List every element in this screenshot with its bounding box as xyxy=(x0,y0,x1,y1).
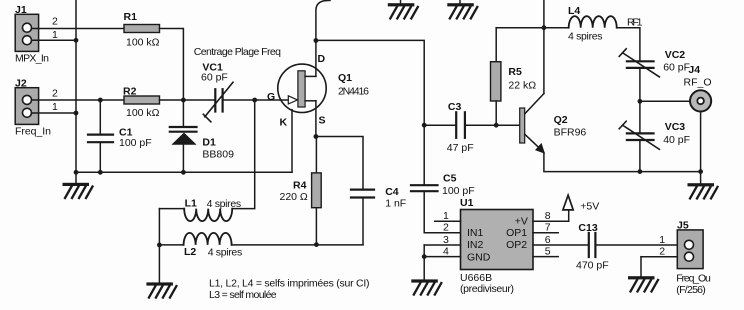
svg-text:7: 7 xyxy=(545,222,551,234)
svg-text:VC2: VC2 xyxy=(665,49,686,61)
node: junction R5 bottom / Q2 base xyxy=(494,123,499,128)
wire J2 pin1 to bus xyxy=(31,101,76,113)
svg-text:60 pF: 60 pF xyxy=(201,72,228,84)
svg-text:220 Ω: 220 Ω xyxy=(280,191,308,203)
ground top 1 xyxy=(388,0,418,18)
ground row wire (C1/D1/K) xyxy=(76,171,292,173)
svg-text:J1: J1 xyxy=(15,4,27,16)
node: junction bus / ground row xyxy=(74,170,79,175)
svg-text:1: 1 xyxy=(52,29,58,41)
wire K to ground row xyxy=(291,110,293,173)
svg-text:RF_O: RF_O xyxy=(684,77,712,89)
ground under J4 xyxy=(688,172,718,199)
capacitor C13 xyxy=(576,222,685,272)
capacitor C5 xyxy=(411,125,475,233)
svg-text:22 kΩ: 22 kΩ xyxy=(508,80,536,92)
svg-text:4 spires: 4 spires xyxy=(207,198,242,210)
svg-text:C4: C4 xyxy=(385,186,399,198)
svg-text:R5: R5 xyxy=(508,66,522,78)
pin 6 wire xyxy=(533,234,589,246)
svg-text:Q2: Q2 xyxy=(554,114,568,126)
node: junction D1 bottom on ground row xyxy=(181,170,186,175)
wire source row to C4 xyxy=(316,137,363,190)
svg-text:+5V: +5V xyxy=(580,201,599,213)
svg-text:2: 2 xyxy=(52,16,58,28)
svg-text:+V: +V xyxy=(515,216,528,228)
wire Q2 emitter down and right rail xyxy=(544,153,701,172)
wire J5 pin2 xyxy=(641,245,685,257)
svg-text:C13: C13 xyxy=(578,222,597,234)
wire L1 left elbow down xyxy=(158,209,160,245)
node: junction R1/R2/D1 xyxy=(181,98,186,103)
top rail xyxy=(496,27,569,29)
svg-text:J5: J5 xyxy=(677,220,689,232)
wire R1 right to node A xyxy=(160,29,184,102)
svg-text:D: D xyxy=(318,53,326,65)
wire pin3 elbow down xyxy=(423,245,425,257)
node: junction pin3/pin4/ground xyxy=(422,254,427,259)
svg-text:C5: C5 xyxy=(443,173,457,185)
svg-text:470 pF: 470 pF xyxy=(576,260,609,272)
svg-text:IN1: IN1 xyxy=(467,227,484,239)
trimmer capacitor VC3 xyxy=(619,101,690,149)
wire L4 to VC2 column xyxy=(617,28,640,61)
svg-text:2N4416: 2N4416 xyxy=(338,86,369,98)
wire bus vertical xyxy=(75,0,77,172)
+5V supply symbol xyxy=(563,195,599,221)
connector J2 xyxy=(15,77,51,137)
wire Q1 source down xyxy=(315,101,317,137)
svg-text:RF1: RF1 xyxy=(627,17,643,29)
svg-text:100 pF: 100 pF xyxy=(119,137,152,149)
svg-text:L2: L2 xyxy=(184,246,196,258)
svg-text:J4: J4 xyxy=(688,64,700,76)
inductor L1 xyxy=(159,197,241,221)
pin 4 wire xyxy=(424,245,460,257)
connector J5 xyxy=(676,220,711,297)
svg-text:6: 6 xyxy=(545,234,551,246)
svg-text:Freq_Ou: Freq_Ou xyxy=(676,272,711,284)
svg-text:100 kΩ: 100 kΩ xyxy=(126,107,160,119)
wire J1 pin2 to R1 xyxy=(31,16,124,29)
svg-text:Q1: Q1 xyxy=(338,72,352,84)
pin 8 wire xyxy=(533,210,569,222)
ground under L junction xyxy=(146,245,176,298)
inductor L4 xyxy=(568,5,617,43)
capacitor C1 xyxy=(88,100,152,172)
node: junction VC3 / emitter rail xyxy=(638,169,643,174)
wire gate node down to L1 xyxy=(232,100,255,209)
JFET Q1 xyxy=(267,53,369,129)
node: junction J1 pin1 / bus xyxy=(74,38,79,43)
node: junction L1/L2/ground xyxy=(157,243,162,248)
svg-text:OP1: OP1 xyxy=(506,227,527,239)
wire top rail up to edge xyxy=(543,0,545,28)
node: junction VC2/VC3/J4 xyxy=(638,99,643,104)
svg-text:R4: R4 xyxy=(293,180,307,192)
node: junction J4 ground xyxy=(698,169,703,174)
pin 5 stub xyxy=(533,245,558,257)
wire bottom rail L2 to R4/C4 xyxy=(232,244,363,246)
wire VC1 to gate node xyxy=(223,99,288,101)
svg-text:1: 1 xyxy=(659,234,665,246)
svg-text:(F/256): (F/256) xyxy=(676,284,706,296)
svg-text:2: 2 xyxy=(659,245,665,257)
svg-text:2: 2 xyxy=(52,88,58,100)
capacitor C3 xyxy=(424,101,520,154)
transistor Q2 xyxy=(520,94,587,153)
wire node to J4 xyxy=(640,100,690,102)
node: junction top rail xyxy=(542,25,547,30)
svg-text:4 spires: 4 spires xyxy=(208,246,243,258)
wire J2 pin2 to R2 xyxy=(31,88,124,101)
svg-text:100 kΩ: 100 kΩ xyxy=(126,37,160,49)
node: junction R4 bottom xyxy=(314,242,319,247)
svg-text:G: G xyxy=(267,91,275,103)
pin 7 stub xyxy=(533,222,558,234)
svg-text:R1: R1 xyxy=(124,11,138,23)
wire drain row to C3 column xyxy=(316,40,424,125)
node: junction C1 bottom xyxy=(98,170,103,175)
wire R2 right to VC1 xyxy=(160,99,216,101)
svg-text:1 nF: 1 nF xyxy=(385,197,406,209)
inductor L2 xyxy=(159,233,242,258)
svg-text:4 spires: 4 spires xyxy=(568,31,603,43)
connector J1 xyxy=(15,4,49,65)
trimmer capacitor VC1 xyxy=(201,62,233,122)
svg-text:L1, L2, L4 = selfs imprimées (: L1, L2, L4 = selfs imprimées (sur CI) xyxy=(209,278,370,290)
node: junction drain xyxy=(314,38,319,43)
connector J4 xyxy=(684,64,712,112)
ground under bus xyxy=(63,172,93,198)
IC U1 xyxy=(460,197,533,295)
trimmer capacitor VC2 xyxy=(619,49,690,77)
svg-text:8: 8 xyxy=(545,210,551,222)
svg-text:R2: R2 xyxy=(123,86,137,98)
wire VC2 to node xyxy=(639,68,641,101)
svg-text:BFR96: BFR96 xyxy=(554,126,587,138)
resistor R5 xyxy=(491,28,537,126)
wire J4 down to rail xyxy=(700,112,702,172)
svg-text:L4: L4 xyxy=(568,5,580,17)
svg-text:L1: L1 xyxy=(185,197,197,209)
svg-text:1: 1 xyxy=(443,210,449,222)
svg-text:Centrage Plage Freq: Centrage Plage Freq xyxy=(194,46,281,58)
wire J1 pin1 to bus xyxy=(31,29,76,41)
note selfs xyxy=(209,278,370,301)
svg-text:1: 1 xyxy=(52,101,58,113)
pin 3 wire xyxy=(424,234,460,246)
svg-text:BB809: BB809 xyxy=(202,149,234,161)
svg-text:S: S xyxy=(319,115,326,127)
resistor R4 xyxy=(280,137,322,245)
svg-text:MPX_In: MPX_In xyxy=(15,53,49,65)
node: junction source xyxy=(314,134,319,139)
svg-text:3: 3 xyxy=(443,234,449,246)
wire drain hop to top edge xyxy=(316,0,330,40)
ground under U1 xyxy=(411,257,441,295)
node: junction C1 top xyxy=(98,98,103,103)
node: junction gate xyxy=(252,98,257,103)
pin 1 stub xyxy=(435,210,461,222)
svg-text:GND: GND xyxy=(467,251,491,263)
node: junction J2 pin1 / bus xyxy=(74,111,79,116)
svg-text:47 pF: 47 pF xyxy=(447,142,474,154)
svg-text:K: K xyxy=(280,117,288,129)
svg-text:4: 4 xyxy=(443,245,449,257)
resistor R2 xyxy=(123,86,160,120)
varicap diode D1 xyxy=(170,101,234,172)
node: junction C3 left xyxy=(422,123,427,128)
ground top 2 xyxy=(447,0,477,18)
svg-text:OP2: OP2 xyxy=(506,239,527,251)
svg-text:C3: C3 xyxy=(448,101,462,113)
svg-text:40 pF: 40 pF xyxy=(663,134,690,146)
svg-text:J2: J2 xyxy=(15,77,27,89)
svg-text:U1: U1 xyxy=(460,197,474,209)
wire Q2 collector up xyxy=(543,28,545,94)
resistor R1 xyxy=(124,11,160,49)
svg-text:IN2: IN2 xyxy=(467,239,484,251)
ground under J5 wire2 xyxy=(628,257,658,292)
svg-text:100 pF: 100 pF xyxy=(442,185,475,197)
capacitor C4 xyxy=(351,186,406,245)
svg-text:L3 = self moulée: L3 = self moulée xyxy=(209,289,277,301)
svg-text:Freq_In: Freq_In xyxy=(15,126,51,138)
wire VC3 bottom to rail xyxy=(639,140,641,172)
wire Q1 drain up xyxy=(315,41,317,77)
svg-text:D1: D1 xyxy=(202,137,216,149)
svg-text:(prediviseur): (prediviseur) xyxy=(460,283,514,295)
svg-text:2: 2 xyxy=(443,222,449,234)
svg-text:VC3: VC3 xyxy=(665,121,686,133)
svg-text:5: 5 xyxy=(545,245,551,257)
svg-text:60 pF: 60 pF xyxy=(663,62,690,74)
